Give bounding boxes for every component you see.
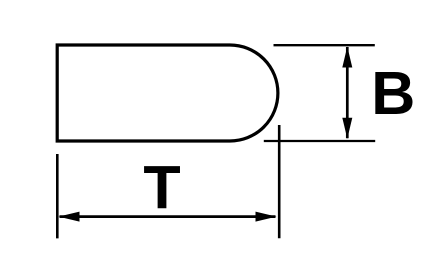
extension line left (T) — [56, 154, 59, 238]
arrowhead T right — [256, 212, 277, 222]
svg-text:B: B — [371, 59, 415, 127]
extension line top (B) — [274, 44, 375, 46]
dimension line B — [346, 47, 349, 138]
extension line bottom (B) — [264, 140, 375, 142]
extension line right (T) — [278, 125, 281, 238]
key cross-section outline (round-ended flat key) — [57, 45, 278, 141]
arrowhead T left — [59, 212, 80, 222]
arrowhead B up — [342, 47, 352, 68]
arrowhead B down — [342, 118, 352, 139]
svg-text:T: T — [143, 154, 180, 222]
dimension line T — [60, 215, 276, 218]
